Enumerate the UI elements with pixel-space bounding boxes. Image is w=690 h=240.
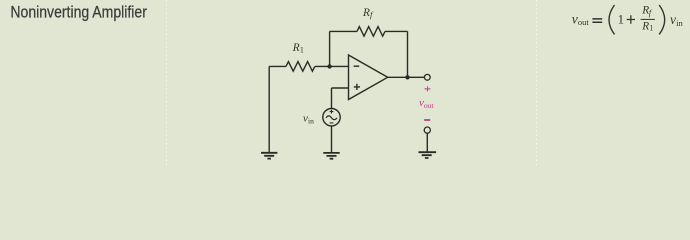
svg-text:Noninverting Amplifier: Noninverting Amplifier bbox=[10, 2, 147, 21]
formula plus bbox=[627, 15, 635, 23]
svg-text:v: v bbox=[670, 12, 676, 27]
svg-text:1: 1 bbox=[618, 13, 624, 27]
label R1 bbox=[292, 42, 304, 55]
wire: inverting net horizontal to R1 bbox=[269, 65, 286, 67]
source plus sign bbox=[330, 110, 334, 114]
formula vout = (1 + Rf/R1) vin bbox=[572, 5, 684, 35]
svg-text:1: 1 bbox=[300, 45, 304, 54]
wire: feedback top left segment bbox=[330, 30, 357, 32]
ground below source bbox=[323, 153, 339, 159]
label vout magenta bbox=[419, 97, 434, 110]
label vin at source bbox=[303, 113, 314, 126]
wire: output to terminal bbox=[388, 76, 425, 78]
ground right output bbox=[419, 152, 437, 158]
wire: noninverting input vertical to source bbox=[331, 88, 333, 109]
node: junction dot inverting input bbox=[327, 64, 331, 68]
port plus sign magenta bbox=[425, 86, 431, 91]
svg-text:out: out bbox=[578, 17, 590, 27]
svg-text:R: R bbox=[362, 7, 370, 19]
wire: feedback right vertical to output bbox=[407, 31, 409, 77]
output terminal circle bottom bbox=[424, 127, 430, 133]
formula equals bbox=[592, 19, 602, 22]
svg-text:R: R bbox=[292, 42, 300, 54]
formula fraction bar bbox=[641, 18, 655, 20]
svg-text:R: R bbox=[641, 21, 649, 33]
wire: feedback left vertical bbox=[329, 31, 331, 66]
resistor Rf zigzag bbox=[357, 27, 385, 37]
formula open paren bbox=[609, 5, 615, 34]
svg-text:out: out bbox=[424, 101, 435, 110]
wire: left vertical from inverting net to ground bbox=[268, 66, 270, 152]
op-amp minus sign bbox=[354, 65, 360, 67]
wire: noninverting input horizontal bbox=[332, 87, 349, 89]
svg-text:in: in bbox=[676, 18, 683, 28]
svg-text:in: in bbox=[308, 116, 314, 125]
svg-text:1: 1 bbox=[649, 23, 653, 32]
port minus sign magenta bbox=[424, 119, 430, 121]
resistor R1 zigzag bbox=[286, 62, 315, 72]
source vin circle bbox=[323, 109, 340, 126]
wire: lower terminal to ground bbox=[426, 133, 428, 152]
wire: feedback top right segment bbox=[385, 30, 408, 32]
ground left bbox=[261, 153, 277, 159]
wire: R1 to op-amp inverting input bbox=[315, 65, 349, 67]
formula close paren bbox=[659, 5, 665, 34]
column separator dotted line right bbox=[536, 0, 538, 166]
source sine tilde bbox=[326, 116, 337, 120]
output terminal circle top bbox=[424, 74, 430, 80]
column separator dotted line left bbox=[166, 0, 168, 166]
node: junction dot output bbox=[405, 75, 409, 79]
wire: source bottom to ground bbox=[331, 126, 333, 152]
label Rf bbox=[362, 7, 374, 20]
source minus sign bbox=[330, 122, 334, 124]
op-amp plus sign bbox=[354, 84, 360, 90]
op-amp U1 triangle bbox=[349, 55, 388, 100]
svg-text:v: v bbox=[572, 11, 578, 26]
